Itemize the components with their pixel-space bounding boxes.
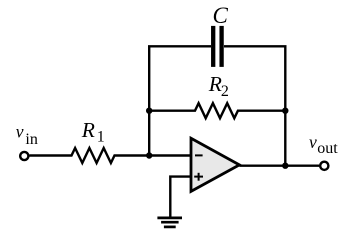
svg-text:R: R — [81, 118, 95, 142]
svg-text:out: out — [317, 140, 338, 157]
svg-text:1: 1 — [97, 129, 105, 146]
svg-text:in: in — [25, 131, 37, 148]
svg-text:R: R — [208, 72, 222, 96]
svg-text:C: C — [213, 3, 229, 28]
svg-text:2: 2 — [221, 83, 229, 100]
svg-text:v: v — [309, 132, 317, 152]
svg-text:v: v — [16, 122, 24, 142]
